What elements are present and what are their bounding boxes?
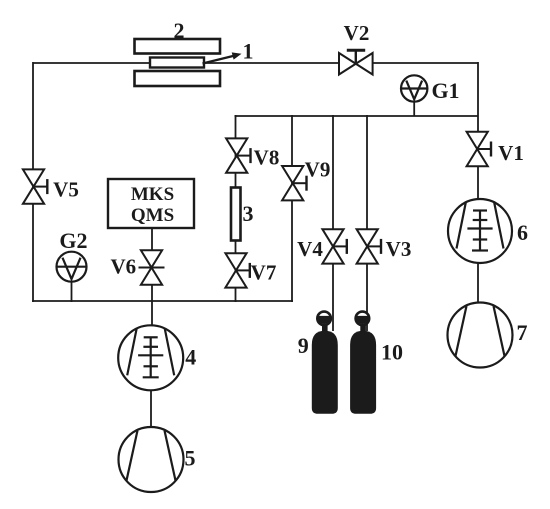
wire V3 branch to cylinder 10 xyxy=(366,115,368,331)
valve V7 xyxy=(225,253,249,287)
chamber middle sample plate xyxy=(150,58,204,68)
gas cylinder 9 xyxy=(312,312,338,414)
svg-text:V1: V1 xyxy=(498,141,524,165)
svg-text:MKS: MKS xyxy=(131,184,174,205)
valve V5 xyxy=(23,169,47,203)
svg-text:9: 9 xyxy=(298,333,309,358)
svg-text:6: 6 xyxy=(517,220,528,245)
valve V4 xyxy=(322,229,346,263)
svg-text:G1: G1 xyxy=(431,78,459,103)
svg-text:V7: V7 xyxy=(251,261,277,285)
svg-text:V2: V2 xyxy=(344,21,370,45)
svg-text:V4: V4 xyxy=(297,237,323,261)
arrow to sample 1 xyxy=(203,52,242,63)
gauge G2 xyxy=(57,252,87,282)
turbo pump 6 xyxy=(448,199,512,263)
valve V3 xyxy=(357,229,381,263)
chamber bottom electrode plate xyxy=(135,71,221,86)
svg-text:QMS: QMS xyxy=(131,205,174,226)
valve V2 xyxy=(339,50,373,74)
svg-text:5: 5 xyxy=(185,446,196,471)
gas cylinder 10 xyxy=(350,312,376,414)
svg-text:1: 1 xyxy=(243,39,254,64)
svg-text:V3: V3 xyxy=(386,237,412,261)
svg-text:3: 3 xyxy=(243,201,254,226)
chamber top electrode plate xyxy=(135,39,221,54)
wire V8-tube3-V7 branch xyxy=(235,115,237,302)
valve V6 xyxy=(139,250,165,284)
svg-text:V9: V9 xyxy=(305,158,331,182)
wire top horizontal (chamber line) xyxy=(33,62,478,64)
wire pump4 to pump5 xyxy=(150,388,152,428)
svg-text:G2: G2 xyxy=(59,228,87,253)
turbo pump 4 xyxy=(118,325,183,390)
wire V4 branch to cylinder 9 xyxy=(332,115,334,331)
rotary pump 5 xyxy=(119,427,184,492)
wire upper manifold xyxy=(235,115,479,117)
wire G2 stem xyxy=(71,281,73,302)
valve V9 xyxy=(282,166,306,200)
svg-text:7: 7 xyxy=(517,320,528,345)
svg-text:2: 2 xyxy=(174,18,185,43)
svg-text:V8: V8 xyxy=(254,146,280,170)
svg-text:V5: V5 xyxy=(53,178,79,202)
wire V9 branch xyxy=(291,115,293,302)
wire bottom manifold xyxy=(32,300,293,302)
wire left vertical (chamber to bottom manifold) xyxy=(32,62,34,302)
MKS QMS analyzer box xyxy=(108,179,194,228)
wire right vertical (V1 branch) xyxy=(477,62,479,200)
svg-text:V6: V6 xyxy=(110,255,136,279)
wire pump6 to pump7 xyxy=(477,262,479,305)
valve V8 xyxy=(226,138,250,172)
tube 3 (gas cell) xyxy=(231,188,241,241)
wire MKS-V6-pump4 branch xyxy=(151,228,153,328)
svg-text:10: 10 xyxy=(381,340,403,365)
svg-text:4: 4 xyxy=(185,345,196,370)
rotary pump 7 xyxy=(448,303,513,368)
valve V1 xyxy=(467,132,491,166)
gauge G1 xyxy=(401,75,427,101)
wire G1 stem xyxy=(413,100,415,116)
